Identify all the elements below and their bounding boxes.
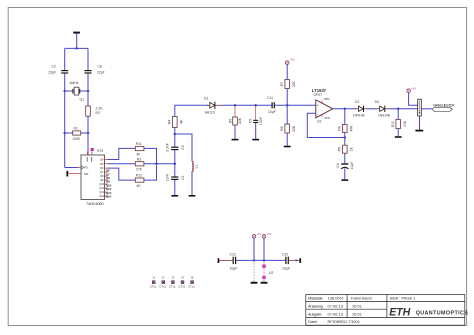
capacitor C1 xyxy=(171,176,178,180)
resistor R5 xyxy=(233,117,238,125)
svg-text:R6: R6 xyxy=(338,126,342,130)
svg-text:RS: RS xyxy=(84,166,88,170)
svg-text:1.5nF: 1.5nF xyxy=(259,117,263,126)
svg-text:100K: 100K xyxy=(73,137,82,141)
svg-text:Q9: Q9 xyxy=(100,178,104,182)
wire R2 to R1 row xyxy=(87,116,89,133)
svg-text:22K: 22K xyxy=(292,125,296,132)
diode D3 xyxy=(377,106,389,112)
junction feedback node xyxy=(344,136,347,139)
svg-text:R8: R8 xyxy=(280,126,284,130)
pad J1 xyxy=(152,281,155,284)
svg-text:MR: MR xyxy=(84,172,88,176)
terminal right xyxy=(299,258,301,263)
svg-text:Ausgabe: Ausgabe xyxy=(308,311,322,316)
svg-text:R12: R12 xyxy=(136,174,142,178)
IC U1a body xyxy=(81,155,105,200)
power +5V circle right xyxy=(262,235,266,239)
svg-text:CTx1: CTx1 xyxy=(169,284,176,288)
svg-text:16:01: 16:01 xyxy=(352,311,363,316)
inductor L1 coil xyxy=(192,162,193,172)
ground (top, pointing up) xyxy=(73,32,80,34)
ground flag bar at MR xyxy=(66,171,68,177)
svg-text:16:01: 16:01 xyxy=(352,303,363,308)
svg-text:R9: R9 xyxy=(338,147,342,151)
pad J2 xyxy=(162,281,165,284)
capacitor C10 xyxy=(285,257,289,264)
svg-text:Q1: Q1 xyxy=(80,98,85,102)
resistor R3 xyxy=(135,162,144,166)
svg-text:Q14: Q14 xyxy=(106,195,112,199)
ground under R8 xyxy=(284,146,291,148)
wire rail to C6 xyxy=(87,48,89,70)
svg-text:C3: C3 xyxy=(181,145,185,149)
pin names inside (gray) xyxy=(84,158,104,199)
svg-text:CTx1: CTx1 xyxy=(179,284,186,288)
svg-text:10K: 10K xyxy=(403,120,407,127)
svg-text:07.06.13: 07.06.13 xyxy=(328,311,344,316)
wire C10 to terminal xyxy=(289,259,300,261)
wire pin Q6 to R12 xyxy=(108,168,136,180)
svg-text:C5: C5 xyxy=(249,119,253,123)
wire top rail xyxy=(65,47,88,49)
wire R6 to fb node xyxy=(344,132,346,145)
pad J3 xyxy=(171,281,174,284)
resistor R9 xyxy=(343,145,348,153)
svg-text:27K: 27K xyxy=(136,168,143,172)
wire main top from R4 xyxy=(175,105,208,116)
clock input wedge xyxy=(81,166,84,170)
svg-text:10µF: 10µF xyxy=(230,266,238,270)
pad J5 xyxy=(190,281,193,284)
wire L1 to ground xyxy=(191,171,193,195)
wire C11 to opamp xyxy=(275,104,316,106)
pin stub CLK xyxy=(78,167,81,169)
svg-text:138.00%: 138.00% xyxy=(328,296,344,301)
svg-text:RFIDBRD2.T3001: RFIDBRD2.T3001 xyxy=(328,319,361,324)
junction tank tap xyxy=(174,163,177,166)
junction R5 xyxy=(234,104,237,107)
svg-text:C6: C6 xyxy=(98,65,102,69)
pin stub top 2 xyxy=(91,152,93,156)
svg-text:C4: C4 xyxy=(336,163,340,167)
power +5V (circle) for pot xyxy=(407,89,411,93)
power +5V (circle) xyxy=(285,61,289,65)
power flag (magenta square) on pin 16 xyxy=(91,148,94,151)
terminal left xyxy=(218,258,220,263)
wire to C5 xyxy=(255,105,257,120)
resistor R10 xyxy=(396,120,401,129)
ground under C5 xyxy=(252,139,259,141)
wire crystal row to R1 row (left) xyxy=(64,91,66,133)
svg-text:ETH: ETH xyxy=(389,306,410,318)
svg-text:Massstab: Massstab xyxy=(308,296,323,301)
wire pin Q5 to R3 xyxy=(108,163,136,165)
wire R1 row left xyxy=(65,132,73,134)
svg-text:C12: C12 xyxy=(230,252,236,256)
wire D3 to pot xyxy=(389,108,418,110)
svg-text:1N4148: 1N4148 xyxy=(378,114,390,118)
wire R5 to ground xyxy=(234,125,236,139)
junction crystal right xyxy=(87,90,90,93)
pin net labels (magenta) xyxy=(106,169,112,199)
svg-text:C1: C1 xyxy=(181,175,185,179)
svg-text:D3: D3 xyxy=(375,100,379,104)
svg-text:CTx1: CTx1 xyxy=(188,284,195,288)
svg-text:1N4148: 1N4148 xyxy=(353,114,365,118)
wire C2 to crystal row xyxy=(64,74,66,91)
pin stub MR xyxy=(68,173,81,175)
svg-text:10µF: 10µF xyxy=(350,162,354,170)
wire C1 to ground xyxy=(174,180,176,195)
svg-text:R5: R5 xyxy=(229,119,233,123)
resistor R8 xyxy=(285,124,290,133)
svg-text:D1: D1 xyxy=(204,96,208,100)
svg-text:10µF: 10µF xyxy=(268,110,276,114)
svg-text:Q10: Q10 xyxy=(99,182,104,186)
hidden pin wire (dashed magenta) xyxy=(263,260,265,281)
svg-text:Q13: Q13 xyxy=(99,190,104,194)
potentiometer P1 xyxy=(418,99,422,116)
svg-text:R4: R4 xyxy=(168,120,172,124)
wire output to R6 xyxy=(344,109,346,125)
wire inverting input to feedback xyxy=(307,113,345,137)
wire R3 to tank node xyxy=(144,163,175,165)
svg-text:Q4: Q4 xyxy=(100,158,104,162)
wire pot to flag xyxy=(421,108,432,110)
wire crystal row right xyxy=(80,90,88,92)
resistor R12 xyxy=(135,178,144,182)
capacitor C12 xyxy=(233,257,237,264)
svg-text:QUANTUMOPTICS: QUANTUMOPTICS xyxy=(416,310,469,316)
wire pot to ground xyxy=(419,116,421,130)
capacitor C11 xyxy=(272,102,275,108)
diode D1 xyxy=(207,102,223,109)
svg-text:R10: R10 xyxy=(391,121,395,127)
junction R1 left xyxy=(63,132,66,135)
capacitor C2 xyxy=(61,70,68,74)
ground under left pin xyxy=(251,282,258,284)
svg-text:AA113: AA113 xyxy=(205,111,215,115)
wire D2 to D3 xyxy=(367,108,377,110)
wire R10 to ground xyxy=(397,129,399,137)
svg-text:R1: R1 xyxy=(74,127,78,131)
svg-text:L1: L1 xyxy=(195,165,199,169)
svg-text:U1a: U1a xyxy=(97,148,103,152)
svg-text:C2: C2 xyxy=(52,65,56,69)
svg-text:OP07: OP07 xyxy=(314,93,323,97)
svg-text:Q5: Q5 xyxy=(100,162,104,166)
wire R7 to node xyxy=(286,89,288,124)
svg-text:TRIM: TRIM xyxy=(324,98,330,101)
svg-text:+: + xyxy=(317,104,319,108)
svg-text:10nF: 10nF xyxy=(166,174,170,182)
junction R10 xyxy=(397,108,400,111)
ground under L1 xyxy=(189,195,196,197)
svg-text:3.3nF: 3.3nF xyxy=(166,143,170,152)
svg-text:Fabio Bazzi: Fabio Bazzi xyxy=(351,296,372,301)
svg-text:1K: 1K xyxy=(350,146,354,151)
net flag MANCHESTER xyxy=(432,107,452,111)
wire crystal row left xyxy=(65,90,73,92)
svg-text:+5V: +5V xyxy=(266,232,271,236)
resistor R7 xyxy=(285,80,290,89)
svg-text:+5V: +5V xyxy=(411,87,416,91)
svg-text:74HC4060: 74HC4060 xyxy=(86,201,104,206)
svg-text:R3: R3 xyxy=(137,157,141,161)
wire +5V right down xyxy=(263,238,265,260)
svg-text:R11: R11 xyxy=(136,142,142,146)
resistor R1 xyxy=(73,131,81,135)
wire D1 to C11 xyxy=(223,104,272,106)
junction right rail xyxy=(263,259,266,262)
svg-text:R7: R7 xyxy=(280,82,284,86)
svg-text:C10: C10 xyxy=(282,252,288,256)
svg-text:4K: 4K xyxy=(137,184,142,188)
wire +5V to R7 xyxy=(286,65,288,80)
wire output xyxy=(333,108,356,110)
wire C12 to rail xyxy=(236,259,286,261)
capacitor C5 xyxy=(253,120,258,123)
wire branch to L1 xyxy=(175,134,192,162)
svg-text:U2: U2 xyxy=(317,120,321,124)
wire pin Q4 to R11 xyxy=(108,148,136,159)
pin number marks inside top xyxy=(87,157,92,162)
svg-text:CTx1: CTx1 xyxy=(159,284,166,288)
svg-text:Änderung: Änderung xyxy=(308,303,323,308)
crystal Q1 xyxy=(73,87,80,95)
wire to R10 xyxy=(397,109,399,120)
junction crystal left xyxy=(63,90,66,93)
svg-text:U2: U2 xyxy=(269,271,273,275)
junction left rail xyxy=(253,259,256,262)
capacitor C3 xyxy=(171,147,178,151)
wire to R5 xyxy=(234,105,236,117)
junction R-join xyxy=(155,163,158,166)
svg-text:4MHz: 4MHz xyxy=(70,81,79,85)
wire rail to C2 xyxy=(64,48,66,70)
resistor R11 xyxy=(135,147,144,151)
wire R1 row right xyxy=(81,132,88,134)
wire R8 to ground xyxy=(286,134,288,146)
svg-text:07.06.13: 07.06.13 xyxy=(328,303,344,308)
ground under R10 xyxy=(395,136,402,138)
svg-text:TRIM: TRIM xyxy=(324,117,330,120)
wire C3 to node xyxy=(174,150,176,176)
svg-text:Q12: Q12 xyxy=(99,186,104,190)
wire R9 to C4 xyxy=(344,153,346,163)
wire C4 to ground xyxy=(344,168,346,179)
svg-text:R2: R2 xyxy=(96,111,100,115)
wire left vertical to clock pin xyxy=(64,133,66,168)
wire terminal to C12 xyxy=(219,259,232,261)
ground under pot xyxy=(415,130,423,132)
junction output xyxy=(344,108,347,111)
title block outline xyxy=(306,295,465,326)
resistor R4 xyxy=(173,117,178,128)
ground under right pin xyxy=(261,282,268,284)
svg-text:4K: 4K xyxy=(180,119,184,124)
junction L1 branch xyxy=(174,133,177,136)
svg-text:22K: 22K xyxy=(292,80,296,87)
svg-text:47K: 47K xyxy=(350,125,354,132)
svg-text:Datei: Datei xyxy=(308,319,317,324)
TRIM pin top xyxy=(321,100,323,103)
TRIM pin bottom xyxy=(321,115,323,118)
junction at right terminal xyxy=(295,259,297,261)
right pin stubs xyxy=(105,160,108,197)
resistor R2 xyxy=(86,106,91,116)
wire +5V to pot top xyxy=(409,93,418,106)
svg-text:10µF: 10µF xyxy=(282,266,290,270)
svg-text:Q6: Q6 xyxy=(100,166,104,170)
resistor R6 xyxy=(343,124,348,132)
junction R1 right xyxy=(87,132,90,135)
capacitor C6 xyxy=(85,70,92,74)
svg-text:22pF: 22pF xyxy=(97,71,105,75)
pad J4 xyxy=(181,281,184,284)
power +5V circle left xyxy=(252,235,256,239)
wire R11 to join xyxy=(144,148,157,163)
svg-text:22pF: 22pF xyxy=(49,71,57,75)
svg-text:D2: D2 xyxy=(355,100,359,104)
wire +5V left down xyxy=(253,238,255,260)
ground under C1 xyxy=(171,195,178,197)
hidden pin V- (dashed magenta) xyxy=(253,260,255,281)
pin stub top 1 xyxy=(87,152,89,156)
svg-text:Q8: Q8 xyxy=(100,174,104,178)
wire R1/R2 node down to IC top pin xyxy=(87,133,89,155)
ground under C4 xyxy=(341,179,348,181)
junction C5 xyxy=(254,104,257,107)
svg-text:+5V: +5V xyxy=(290,58,295,62)
junction bias node xyxy=(286,104,289,107)
svg-text:Q7: Q7 xyxy=(100,170,104,174)
diode D2 xyxy=(355,106,367,112)
svg-text:22K: 22K xyxy=(238,117,242,124)
svg-text:+5V: +5V xyxy=(256,232,261,236)
svg-text:4K: 4K xyxy=(137,152,142,156)
svg-text:MANCHESTER: MANCHESTER xyxy=(433,103,455,107)
wire ground to rail xyxy=(76,33,78,49)
ground under R5 xyxy=(232,139,239,141)
wire into IC clock pin xyxy=(65,167,78,169)
svg-text:CTx1: CTx1 xyxy=(150,284,157,288)
wire R12 to join xyxy=(144,164,157,180)
hidden power pin symbols U2 xyxy=(262,265,265,279)
svg-text:Blatt : PAGE 1: Blatt : PAGE 1 xyxy=(390,296,416,301)
op-amp U2 triangle xyxy=(316,100,333,118)
wire R4 to L1 node xyxy=(174,128,176,147)
svg-text:Q14: Q14 xyxy=(99,194,104,198)
wire C5 to ground xyxy=(255,123,257,139)
wire C6 down xyxy=(87,74,89,106)
junction top rail xyxy=(75,47,78,50)
svg-text:C11: C11 xyxy=(267,96,273,100)
capacitor C4 (electrolytic) xyxy=(341,163,348,169)
